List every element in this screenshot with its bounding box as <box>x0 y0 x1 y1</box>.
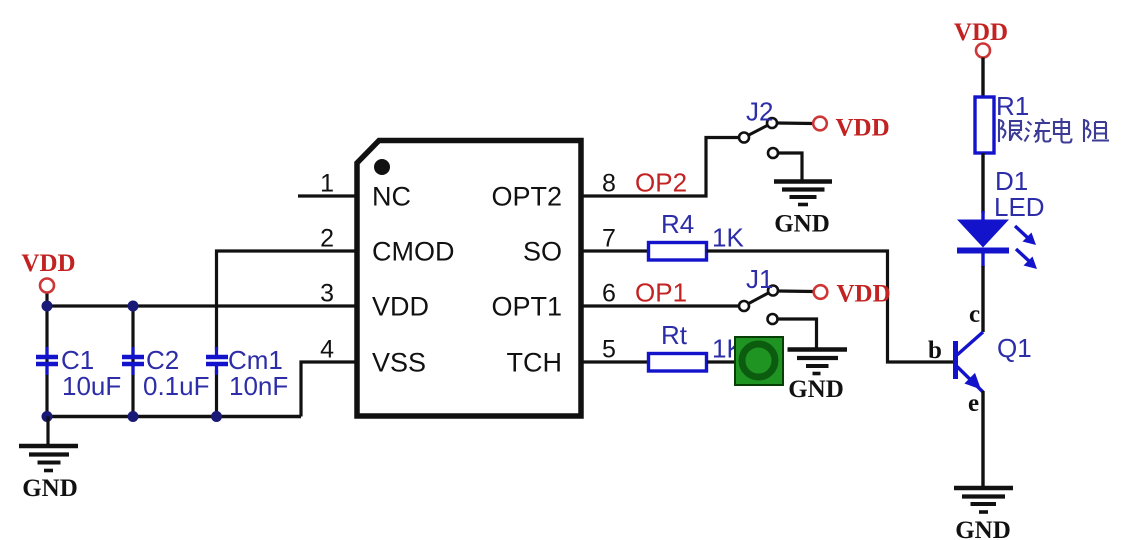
svg-text:2: 2 <box>320 225 334 253</box>
touch pad <box>735 337 783 385</box>
jumper J1 <box>739 286 814 325</box>
svg-text:5: 5 <box>602 336 616 364</box>
svg-text:SO: SO <box>523 237 562 267</box>
node junction gnd-C1 <box>42 411 53 422</box>
wire VDD to R1 <box>981 58 984 98</box>
wire R4 to Q1 base <box>707 251 954 362</box>
wire Rt to touch pad <box>707 360 736 363</box>
svg-text:VDD: VDD <box>837 281 891 308</box>
svg-text:TCH: TCH <box>507 348 563 378</box>
LED D1 <box>957 211 1037 269</box>
svg-text:NC: NC <box>372 182 411 212</box>
wire pin6 to J1 <box>581 304 739 307</box>
IC U1 body <box>357 141 581 417</box>
svg-text:VDD: VDD <box>21 250 75 277</box>
node junction VDD-C1 <box>42 301 53 312</box>
svg-text:VDD: VDD <box>372 292 429 322</box>
svg-text:8: 8 <box>602 170 616 198</box>
svg-text:R4: R4 <box>661 209 694 239</box>
resistor R4 <box>649 243 707 261</box>
wire J2 to ground <box>778 153 802 180</box>
wire ground rail <box>47 415 301 418</box>
capacitor C1 <box>36 347 58 375</box>
wire pin5 to Rt <box>581 360 649 363</box>
resistor Rt <box>649 354 707 372</box>
svg-text:1: 1 <box>320 170 334 198</box>
svg-text:4: 4 <box>320 336 334 364</box>
wire pin2 to Cm1 <box>217 251 358 350</box>
wire pin3 VDD rail <box>47 304 357 307</box>
power port VDD top right <box>954 19 1008 58</box>
svg-text:VDD: VDD <box>954 19 1008 46</box>
jumper J2 <box>739 118 813 158</box>
transistor Q1 <box>953 332 983 392</box>
svg-text:LED: LED <box>994 192 1045 222</box>
svg-text:R1: R1 <box>996 91 1029 121</box>
ground symbol left <box>19 417 78 471</box>
ground symbol J1 <box>788 350 848 374</box>
svg-text:3: 3 <box>320 280 334 308</box>
wire LED to Q1 collector <box>981 266 984 332</box>
svg-text:GND: GND <box>22 475 78 502</box>
power port VDD at J1 <box>814 281 891 308</box>
svg-text:OPT1: OPT1 <box>491 292 562 322</box>
svg-text:6: 6 <box>602 280 616 308</box>
wire Cm1 bottom lead <box>215 370 218 417</box>
label xianliu dianzu (limiting-current resistor) <box>999 118 1109 143</box>
svg-text:GND: GND <box>774 211 830 238</box>
svg-text:10uF: 10uF <box>62 371 121 401</box>
wire C1 branch <box>45 306 48 417</box>
wire J1 to ground <box>778 319 817 348</box>
wire C2 branch <box>131 306 134 417</box>
IC pin-1 marker dot <box>374 159 390 175</box>
wire VDD stub left <box>45 292 48 306</box>
svg-text:OP2: OP2 <box>635 168 687 198</box>
capacitor C2 <box>122 347 144 375</box>
svg-text:J1: J1 <box>746 264 773 294</box>
ground symbol J2 <box>774 182 832 205</box>
svg-text:VSS: VSS <box>372 348 426 378</box>
svg-text:1K: 1K <box>712 223 744 253</box>
wire R1 to LED <box>981 153 984 213</box>
svg-text:b: b <box>928 337 942 364</box>
svg-text:Q1: Q1 <box>997 333 1032 363</box>
svg-text:OP1: OP1 <box>635 278 687 308</box>
node junction gnd-Cm1 <box>211 411 222 422</box>
ground symbol Q1 <box>954 488 1013 512</box>
svg-text:0.1uF: 0.1uF <box>143 371 210 401</box>
node junction VDD-C2 <box>128 301 139 312</box>
wire pin8 to J2 <box>581 138 739 197</box>
svg-text:GND: GND <box>955 517 1011 540</box>
wire pin7 to R4 <box>581 249 649 252</box>
power port VDD left <box>21 250 75 293</box>
capacitor Cm1 <box>206 347 228 375</box>
node junction gnd-C2 <box>128 411 139 422</box>
svg-text:VDD: VDD <box>836 115 890 142</box>
wire Q1 emitter to ground <box>981 391 984 488</box>
svg-text:e: e <box>968 390 979 417</box>
svg-text:CMOD: CMOD <box>372 237 455 267</box>
svg-text:GND: GND <box>788 376 844 403</box>
resistor R1 <box>975 97 994 153</box>
svg-text:J2: J2 <box>746 97 773 127</box>
power port VDD at J2 <box>813 115 889 142</box>
svg-text:c: c <box>969 301 980 328</box>
svg-text:7: 7 <box>602 225 616 253</box>
svg-text:OPT2: OPT2 <box>491 182 562 212</box>
svg-text:Rt: Rt <box>661 320 688 350</box>
wire pin1 stub <box>298 194 357 197</box>
wire pin4 VSS <box>301 362 357 417</box>
svg-text:10nF: 10nF <box>229 371 288 401</box>
